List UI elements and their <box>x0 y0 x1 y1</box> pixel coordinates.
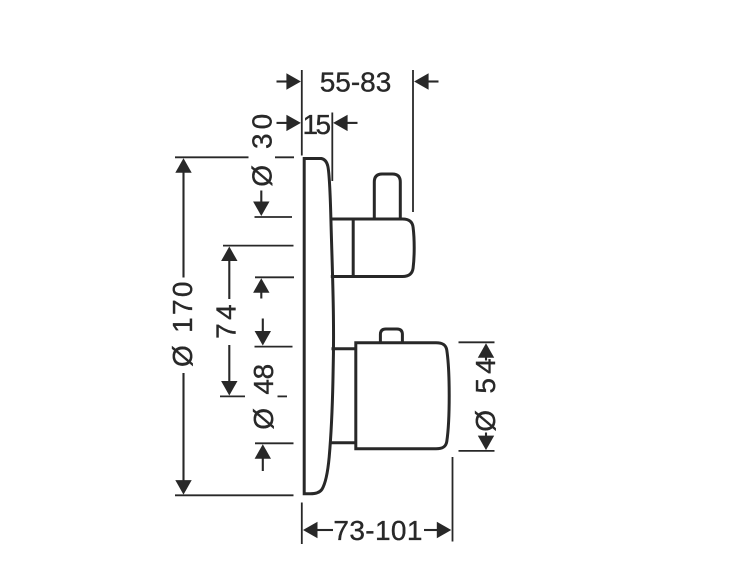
dim dia54 upper arrow <box>478 343 494 360</box>
dim dia54 bottom tick <box>459 450 495 452</box>
dim dia170 top tick <box>175 156 294 158</box>
dim dia30 upper arrow <box>253 191 269 217</box>
dim 73-101 left extension line <box>301 503 303 545</box>
svg-text:55-83: 55-83 <box>320 67 392 98</box>
dim dia54 lower arrow <box>478 433 494 451</box>
dim dia48 lower arrow <box>255 444 271 471</box>
svg-text:Ø 170: Ø 170 <box>167 282 198 368</box>
dim 15 left arrow <box>277 115 301 131</box>
upper knob body <box>331 219 414 277</box>
dim 74 bottom tick <box>220 395 287 397</box>
lower knob tab <box>380 329 402 343</box>
dim dia48 upper arrow <box>255 319 271 346</box>
dim 74 top tick <box>223 245 294 247</box>
lower knob collar bottom edge <box>331 441 356 444</box>
dim dia170 bottom tick <box>175 494 294 496</box>
dim 15 right extension line <box>331 113 333 182</box>
dim dia30 lower tick <box>255 276 294 278</box>
svg-text:Ø 30: Ø 30 <box>246 114 277 187</box>
dim dia54 top tick <box>459 341 495 343</box>
upper knob collar divider <box>352 219 355 277</box>
svg-text:73-101: 73-101 <box>333 515 422 546</box>
lower knob collar top edge <box>332 347 356 350</box>
dim dia48 lower tick <box>255 442 294 444</box>
dim 55-83 right extension line <box>412 70 414 212</box>
dim dia30 lower arrow <box>253 278 269 298</box>
dim 15 right arrow <box>333 115 357 131</box>
dim 74 line and arrows <box>221 247 237 396</box>
dim 73-101 left arrow <box>303 522 333 538</box>
dim dia30 upper tick <box>255 216 293 218</box>
lower knob body <box>356 343 449 449</box>
dim 55-83 right arrow <box>414 73 438 89</box>
dim 55-83 left arrow <box>277 73 301 89</box>
dim 73-101 right arrow <box>424 522 451 538</box>
svg-text:Ø 54: Ø 54 <box>470 358 501 432</box>
upper knob stem <box>374 174 400 218</box>
dim 55-83 left extension line <box>301 70 303 156</box>
dim dia170 line and arrows <box>175 158 191 494</box>
dim dia48 upper tick <box>255 346 293 348</box>
escutcheon plate (side view) <box>304 159 333 494</box>
svg-text:Ø 48: Ø 48 <box>248 364 279 430</box>
svg-text:74: 74 <box>211 304 242 339</box>
dim 73-101 right extension line <box>452 457 454 542</box>
svg-text:15: 15 <box>303 109 332 140</box>
